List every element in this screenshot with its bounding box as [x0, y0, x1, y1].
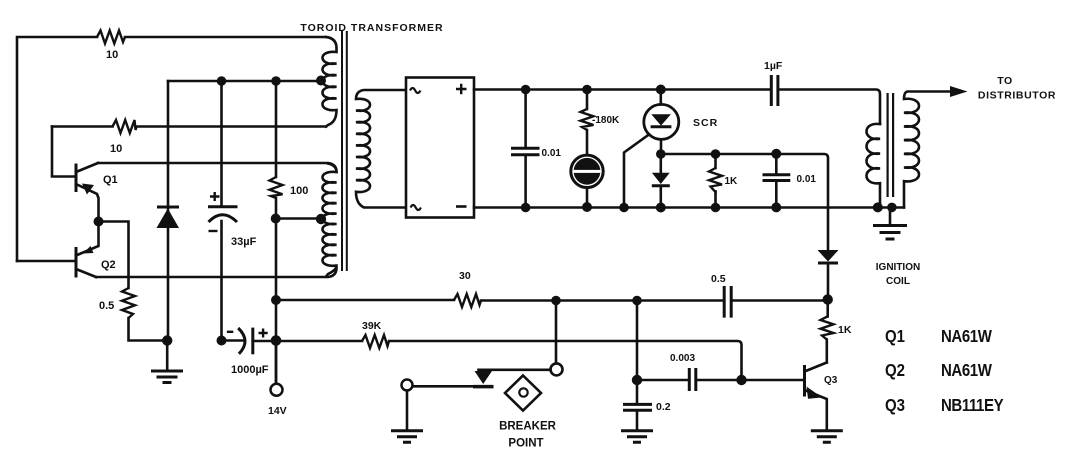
wire Q1 collector to toroid: [98, 163, 337, 172]
svg-text:14V: 14V: [268, 405, 287, 417]
node dot D2 bottom: [656, 203, 666, 213]
toroid primary winding bottom: [322, 164, 336, 277]
svg-text:SCR: SCR: [693, 117, 718, 129]
svg-text:10: 10: [106, 49, 118, 61]
capacitor 1uF: [771, 75, 778, 106]
breaker cam diamond: [505, 376, 541, 411]
terminal 14V: [271, 341, 283, 396]
svg-text:TOROID TRANSFORMER: TOROID TRANSFORMER: [300, 22, 443, 34]
svg-text:POINT: POINT: [508, 438, 543, 450]
label Q3 NB111EY: [885, 396, 1004, 415]
lamp: [571, 155, 603, 207]
svg-text:1000µF: 1000µF: [231, 364, 269, 376]
svg-text:33µF: 33µF: [231, 236, 257, 248]
node dot breaker branch: [551, 296, 561, 306]
node dot 1000uF right: [271, 335, 282, 346]
resistor 100 branch wire: [275, 81, 278, 384]
breaker point assembly: [402, 301, 563, 431]
resistor 39K: [362, 335, 389, 348]
node dot 0.01 second top: [771, 149, 781, 159]
node dot coil ground: [887, 203, 897, 213]
node dot tap junction: [271, 214, 281, 224]
resistor 1K (second): [821, 300, 834, 363]
capacitor 0.01 (first): [511, 90, 540, 208]
node dot 1K bottom: [711, 203, 721, 213]
resistor 10 (second): [113, 120, 137, 133]
svg-text:BREAKER: BREAKER: [499, 421, 557, 433]
node dot SCR top: [656, 85, 666, 95]
capacitor 33uF branch wire: [220, 81, 223, 341]
label + top: [456, 84, 467, 95]
wire y=81 bus: [168, 80, 321, 83]
ground (0.2 capacitor): [621, 431, 653, 442]
wire Q2 base: [17, 260, 75, 263]
svg-text:0.003: 0.003: [670, 353, 695, 364]
ground (Q3): [811, 431, 843, 442]
node dot 0.003 left: [632, 375, 642, 385]
svg-text:NA61W: NA61W: [941, 327, 992, 346]
transistor Q1: [76, 163, 99, 218]
svg-text:TO: TO: [997, 75, 1013, 87]
resistor 0.5: [122, 288, 135, 318]
node dot 0.01 top: [521, 85, 531, 95]
node dot 33uF/ground wire: [217, 336, 227, 346]
node dot coil primary bottom: [873, 202, 883, 212]
svg-text:NA61W: NA61W: [941, 361, 992, 380]
svg-text:1µF: 1µF: [764, 60, 783, 72]
node dot Q3 base node: [736, 375, 746, 385]
svg-text:0.2: 0.2: [656, 401, 671, 413]
svg-text:Q2: Q2: [885, 361, 905, 380]
svg-text:30: 30: [459, 270, 471, 282]
capacitor 33uF: [208, 192, 238, 231]
diode D2: [652, 154, 670, 208]
capacitor 0.01 (second): [763, 154, 791, 208]
resistor 10 (top): [97, 31, 125, 44]
label - bottom: [456, 205, 467, 208]
wire top rail: [474, 90, 880, 125]
node dot at 221.5,81: [217, 76, 227, 86]
node ground junction: [162, 335, 172, 345]
svg-text:DISTRIBUTOR: DISTRIBUTOR: [978, 90, 1056, 102]
svg-text:0.01: 0.01: [797, 174, 817, 185]
wire SCR cathode bus: [661, 154, 828, 250]
svg-text:COIL: COIL: [886, 276, 910, 287]
svg-text:1K: 1K: [838, 324, 852, 336]
svg-text:0.01: 0.01: [542, 148, 562, 159]
label ~ top: [410, 88, 420, 93]
wire 39K line: [222, 341, 742, 381]
svg-text:NB111EY: NB111EY: [941, 396, 1004, 415]
toroid primary winding top: [322, 37, 336, 127]
resistor 100: [270, 177, 283, 198]
ignition coil secondary: [904, 92, 950, 208]
node dot lamp bottom: [582, 202, 592, 212]
svg-text:IGNITION: IGNITION: [876, 262, 920, 273]
wire tap to winding: [276, 217, 321, 220]
svg-text:Q1: Q1: [103, 174, 118, 186]
wire to distributor arrow: [950, 86, 968, 97]
transistor Q3: [805, 363, 827, 431]
wire Q2 collector to toroid: [96, 268, 337, 277]
toroid core: [342, 31, 347, 271]
svg-text:-180K: -180K: [592, 115, 620, 126]
resistor 30: [454, 294, 481, 307]
toroid secondary winding: [356, 90, 406, 208]
capacitor 1000uF: [227, 328, 268, 355]
node dot 1K top: [711, 149, 721, 159]
svg-text:Q2: Q2: [101, 259, 116, 271]
node dot 0.01 second bottom: [771, 202, 781, 212]
bridge rectifier box: [406, 78, 474, 218]
wire SCR gate: [624, 135, 649, 208]
ignition coil core: [888, 93, 894, 197]
node dot D3 bottom: [823, 294, 833, 304]
node dot winding tap: [316, 214, 326, 224]
ground (ignition coil): [873, 207, 907, 239]
label Q2 NA61W: [885, 361, 992, 380]
node dot winding top tap: [316, 76, 326, 86]
capacitor 0.2: [623, 380, 652, 431]
svg-text:Q1: Q1: [885, 327, 905, 346]
svg-text:1K: 1K: [725, 176, 739, 187]
capacitor 0.5 (coupling): [724, 286, 731, 318]
diode D3: [818, 250, 839, 299]
label ~ bottom: [411, 205, 421, 210]
transistor Q2: [76, 222, 99, 278]
svg-text:100: 100: [290, 185, 308, 197]
svg-text:Q3: Q3: [824, 375, 838, 386]
ground (breaker): [391, 431, 423, 442]
svg-text:39K: 39K: [362, 320, 382, 332]
wire junction to 0.5 resistor branch: [99, 222, 168, 341]
node dot 30-line left: [271, 295, 281, 305]
node dot 0.003 branch top: [632, 296, 642, 306]
wire 30 line: [276, 299, 828, 302]
wire top-left loop: [17, 37, 326, 261]
node dot at 276,81: [271, 76, 281, 86]
resistor 180K: [581, 90, 594, 155]
node dot 0.01 bottom: [521, 203, 531, 213]
node dot gate bottom: [619, 203, 629, 213]
resistor 1K (first): [709, 154, 722, 208]
svg-text:Q3: Q3: [885, 396, 905, 415]
wire 0.003 branch vertical: [636, 301, 639, 381]
ignition coil primary: [867, 124, 881, 208]
capacitor 0.003: [637, 368, 742, 391]
wire bottom rail: [474, 206, 904, 209]
diode D1: [157, 81, 180, 341]
svg-text:10: 10: [110, 143, 122, 155]
SCR U1: [644, 90, 679, 155]
wire second 10 line: [52, 125, 326, 128]
node Q1/Q2 emitter junction: [94, 217, 104, 227]
svg-text:0.5: 0.5: [711, 273, 726, 285]
ground (left): [151, 341, 183, 383]
svg-text:0.5: 0.5: [99, 300, 114, 312]
wire Q3 base: [742, 379, 804, 382]
label Q1 NA61W: [885, 327, 992, 346]
node dot SCR cathode: [656, 149, 666, 159]
wire to Q1 base: [52, 127, 75, 177]
node dot 180K top: [582, 85, 592, 95]
